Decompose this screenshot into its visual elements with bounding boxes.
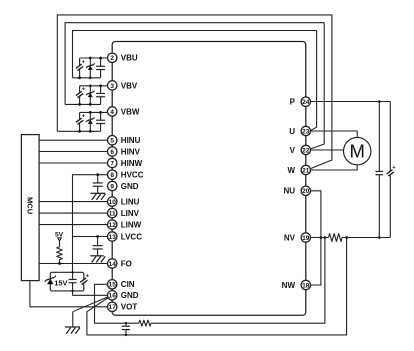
svg-text:FO: FO bbox=[121, 259, 132, 268]
svg-text:+: + bbox=[82, 87, 86, 93]
svg-text:NV: NV bbox=[284, 233, 296, 242]
svg-text:3: 3 bbox=[110, 83, 114, 90]
svg-text:8: 8 bbox=[110, 172, 114, 179]
svg-text:14: 14 bbox=[109, 261, 117, 268]
svg-text:24: 24 bbox=[302, 99, 310, 106]
svg-text:LINU: LINU bbox=[121, 198, 140, 207]
svg-text:21: 21 bbox=[302, 167, 310, 174]
svg-text:20: 20 bbox=[302, 188, 310, 195]
svg-text:5: 5 bbox=[110, 138, 114, 145]
svg-text:VBU: VBU bbox=[121, 54, 138, 63]
svg-text:LVCC: LVCC bbox=[121, 232, 142, 241]
svg-text:23: 23 bbox=[302, 128, 310, 135]
svg-text:11: 11 bbox=[109, 210, 116, 217]
svg-text:NU: NU bbox=[283, 187, 295, 196]
svg-text:HVCC: HVCC bbox=[121, 171, 144, 180]
svg-text:LINV: LINV bbox=[121, 209, 140, 218]
svg-text:4: 4 bbox=[110, 109, 114, 116]
svg-text:+: + bbox=[392, 165, 396, 171]
svg-text:10: 10 bbox=[109, 199, 117, 206]
svg-text:15V: 15V bbox=[54, 279, 67, 288]
svg-text:6: 6 bbox=[110, 149, 114, 156]
svg-text:MCU: MCU bbox=[26, 197, 35, 214]
svg-text:CIN: CIN bbox=[121, 280, 135, 289]
svg-text:LINW: LINW bbox=[121, 221, 142, 230]
svg-text:13: 13 bbox=[109, 234, 117, 241]
svg-text:P: P bbox=[290, 98, 296, 107]
svg-text:+: + bbox=[82, 59, 86, 65]
svg-text:9: 9 bbox=[110, 183, 114, 190]
svg-text:17: 17 bbox=[109, 304, 117, 311]
svg-text:+: + bbox=[82, 113, 86, 119]
svg-text:VBV: VBV bbox=[121, 81, 138, 90]
svg-text:U: U bbox=[289, 127, 295, 136]
svg-text:GND: GND bbox=[121, 291, 139, 300]
svg-text:VBW: VBW bbox=[121, 107, 140, 116]
svg-text:16: 16 bbox=[109, 293, 117, 300]
svg-text:VOT: VOT bbox=[121, 303, 138, 312]
svg-text:GND: GND bbox=[121, 182, 139, 191]
svg-text:15: 15 bbox=[109, 282, 117, 289]
svg-text:2: 2 bbox=[110, 55, 114, 62]
svg-text:12: 12 bbox=[109, 222, 117, 229]
svg-text:+: + bbox=[86, 273, 90, 279]
svg-text:HINU: HINU bbox=[121, 136, 141, 145]
svg-text:HINW: HINW bbox=[121, 159, 143, 168]
svg-text:18: 18 bbox=[302, 282, 310, 289]
svg-text:HINV: HINV bbox=[121, 147, 141, 156]
svg-text:M: M bbox=[349, 141, 364, 162]
svg-text:NW: NW bbox=[282, 281, 296, 290]
svg-text:19: 19 bbox=[302, 235, 310, 242]
svg-text:7: 7 bbox=[110, 160, 114, 167]
svg-text:V: V bbox=[290, 146, 296, 155]
svg-text:22: 22 bbox=[302, 147, 310, 154]
svg-text:W: W bbox=[287, 166, 295, 175]
